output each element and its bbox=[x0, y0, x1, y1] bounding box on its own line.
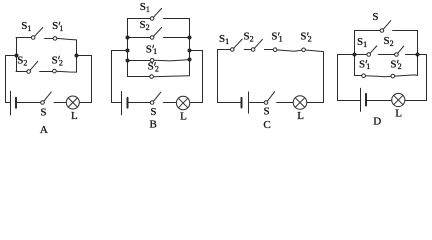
svg-text:S: S bbox=[264, 106, 270, 118]
svg-text:C: C bbox=[263, 119, 270, 131]
svg-text:L: L bbox=[297, 110, 304, 122]
svg-text:L: L bbox=[71, 110, 78, 122]
svg-text:A: A bbox=[40, 124, 48, 136]
svg-text:L: L bbox=[180, 110, 187, 122]
svg-text:B: B bbox=[150, 119, 157, 131]
svg-text:S: S bbox=[40, 107, 46, 119]
svg-text:L: L bbox=[395, 107, 402, 119]
svg-text:D: D bbox=[373, 115, 381, 127]
svg-text:S: S bbox=[150, 106, 156, 118]
svg-text:S: S bbox=[372, 11, 378, 23]
